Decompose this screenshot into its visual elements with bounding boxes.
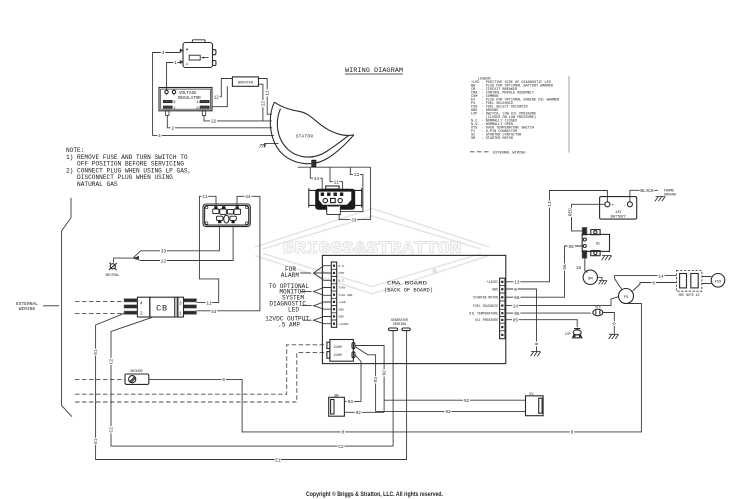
svg-text:11: 11 (266, 90, 271, 96)
svg-text:ALARM: ALARM (281, 272, 300, 279)
wire 16 (SC to SM) (576, 258, 588, 272)
svg-text:240V: 240V (334, 346, 343, 350)
svg-text:(BACK OF BOARD): (BACK OF BOARD) (384, 287, 433, 294)
stator output pin (black) (311, 160, 316, 167)
ground lug (125, 370, 149, 385)
wire 0 (ground lug to FS bottom) (149, 304, 642, 436)
svg-text:16: 16 (576, 266, 582, 271)
svg-text:1: 1 (174, 61, 177, 66)
svg-text:C2: C2 (109, 427, 114, 433)
svg-text:+LED: +LED (339, 301, 346, 304)
wire 1 (module to regulator) (167, 61, 181, 90)
svg-text:4: 4 (158, 134, 161, 139)
svg-text:OIL TEMPERATURE: OIL TEMPERATURE (469, 312, 498, 316)
generator sensing terminals (389, 318, 411, 331)
svg-text:56: 56 (563, 264, 568, 270)
svg-text:44: 44 (211, 310, 217, 315)
svg-text:C2: C2 (338, 445, 344, 450)
svg-text:0: 0 (342, 431, 345, 436)
legend right rule (568, 76, 570, 153)
svg-text:22: 22 (196, 107, 200, 111)
wire 4 (module to left rail) (153, 51, 274, 139)
wire 14 (CMA fuel solenoid to FS) (505, 297, 619, 310)
svg-text:11: 11 (206, 301, 212, 306)
svg-text:85: 85 (513, 319, 519, 324)
watermark BRIGGS&STRATTON text (283, 239, 462, 276)
legend external wiring sample (470, 152, 525, 156)
svg-text:SM: SM (588, 277, 593, 281)
svg-text:GND: GND (492, 288, 498, 292)
title WIRING DIAGRAM (345, 67, 403, 74)
fuel select solenoid FSS (702, 274, 725, 288)
booster box (232, 77, 258, 86)
stator ground stub (260, 144, 279, 148)
wire 44 (bus to connector) (310, 167, 322, 193)
wire 0 (CMA GND to ground) (505, 288, 541, 356)
svg-text:VOLTAGE: VOLTAGE (179, 92, 197, 96)
svg-text:4: 4 (162, 51, 165, 56)
wire 92 (240V top pin to EV, with BW branch) (345, 346, 526, 417)
wire 44 (P1 top right, from CB pin 1) (197, 195, 260, 315)
svg-text:11: 11 (197, 101, 201, 105)
svg-text:LED: LED (288, 306, 299, 313)
svg-text:33: 33 (351, 218, 357, 223)
svg-text:-: - (623, 203, 626, 208)
svg-text:GND: GND (339, 316, 344, 319)
svg-text:92: 92 (383, 370, 388, 376)
svg-text:+12VDC: +12VDC (339, 323, 350, 326)
svg-text:93: 93 (374, 377, 379, 383)
wire 22 (bus to connector, around right) (327, 167, 363, 211)
wire 93 (240V bottom pin to BW) (345, 355, 361, 405)
svg-text:BOOSTER: BOOSTER (238, 82, 254, 86)
svg-text:LOP: LOP (565, 332, 571, 336)
wire 85 (CMA oil pressure to LOP) (505, 319, 577, 328)
wire 14 (FS top to LP plug) (615, 274, 677, 289)
battery negative wire BLACK to frame ground (630, 189, 676, 202)
svg-text:2: 2 (140, 311, 143, 316)
svg-text:STATOR: STATOR (296, 134, 314, 139)
external wiring dashed lines to CB (75, 300, 124, 302)
svg-text:EXTERNAL: EXTERNAL (16, 301, 38, 307)
svg-text:0: 0 (652, 281, 655, 286)
watermark Briggs & Stratton emblem (255, 209, 489, 295)
CMA left terminal strip (331, 262, 352, 327)
dashed external wiring to 240V plug (lower) (75, 353, 327, 402)
svg-text:93: 93 (348, 400, 354, 405)
svg-text:TxRx: TxRx (339, 287, 346, 290)
svg-text:NEUTRAL: NEUTRAL (106, 273, 120, 277)
svg-text:WIRING DIAGRAM: WIRING DIAGRAM (345, 67, 403, 74)
over temperature switch OTS (593, 305, 603, 316)
240V output connector (327, 340, 355, 362)
svg-text:22: 22 (161, 259, 167, 264)
wire 11 (booster to stator) (259, 79, 272, 115)
svg-text:SENSING: SENSING (393, 322, 406, 326)
svg-text:CMA BOARD: CMA BOARD (387, 280, 428, 287)
wire 2 (regulator pin to stator) (167, 115, 272, 131)
wire 95 (CMA oil temperature to OTS) (505, 312, 591, 317)
svg-text:WIRING: WIRING (19, 306, 36, 312)
svg-text:®: ® (433, 269, 437, 276)
wire 0 (FS right to LP plug) (633, 281, 677, 291)
svg-text:0: 0 (571, 431, 574, 436)
svg-text:12: 12 (214, 96, 220, 101)
wire 33 (connector bottom to bus right end) (339, 167, 371, 223)
CMA right terminal strip (469, 278, 505, 339)
low oil pressure switch LOP (565, 329, 582, 338)
svg-text:1: 1 (179, 311, 182, 316)
svg-text:92: 92 (356, 411, 362, 416)
dashed external wiring to 240V plug (upper) (75, 345, 327, 394)
note text (66, 147, 191, 188)
12V battery (600, 197, 637, 220)
stator (270, 102, 354, 163)
svg-text:EXTERNAL WIRING: EXTERNAL WIRING (493, 152, 525, 156)
battery positive wire RED to SC (568, 204, 605, 231)
BW plug (battery warmer) (329, 394, 345, 416)
svg-text:RED: RED (568, 208, 573, 216)
wire 22 horizontal (regulator pin to stator) (204, 115, 272, 124)
svg-text:STARTER MOTOR: STARTER MOTOR (473, 296, 498, 300)
stator top wave (274, 102, 354, 135)
svg-text:3: 3 (179, 302, 182, 307)
svg-text:N.C.: N.C. (339, 279, 346, 282)
CMA left chevrons (wire bundles) (314, 266, 332, 324)
CMA board (322, 255, 505, 363)
stator outer arc (270, 102, 354, 163)
svg-text:Copyright © Briggs & Stratton,: Copyright © Briggs & Stratton, LLC. All … (306, 490, 443, 498)
svg-text:22: 22 (354, 173, 360, 178)
svg-text:0: 0 (535, 342, 540, 345)
svg-text:2: 2 (174, 107, 176, 111)
svg-text:0: 0 (613, 322, 618, 325)
starter contactor SC (582, 227, 612, 260)
svg-text:2: 2 (171, 127, 174, 132)
voltage regulator (159, 88, 212, 116)
LP gas plug (see note 2) (676, 271, 702, 297)
svg-text:BATTERY: BATTERY (611, 215, 627, 219)
svg-text:REGULATOR: REGULATOR (178, 97, 201, 101)
svg-text:NATURAL GAS: NATURAL GAS (66, 181, 118, 188)
svg-text:.5 AMP: .5 AMP (278, 321, 300, 328)
svg-text:22: 22 (261, 101, 266, 107)
starter motor SM (583, 270, 607, 284)
svg-text:C2: C2 (109, 358, 114, 364)
svg-text:13: 13 (514, 281, 520, 286)
stator inner arc (277, 109, 348, 157)
svg-text:11: 11 (202, 195, 208, 200)
stator connector (engine harness) (308, 186, 362, 215)
fuel solenoid FS (619, 289, 634, 304)
wire C2 vertical (CB to bottom rail) (109, 317, 393, 450)
svg-text:13: 13 (548, 201, 553, 207)
svg-text:12V: 12V (615, 211, 622, 215)
svg-text:14: 14 (513, 304, 519, 309)
svg-text:BLACK: BLACK (640, 189, 654, 194)
svg-text:CB: CB (156, 304, 168, 314)
svg-text:GROUND: GROUND (664, 194, 676, 198)
svg-text:+: + (612, 203, 615, 208)
EV plug (engine oil warmer) (526, 393, 544, 416)
svg-text:+12VDC: +12VDC (487, 280, 499, 284)
svg-text:56: 56 (569, 245, 575, 250)
svg-text:22: 22 (211, 120, 217, 125)
svg-text:GROUND: GROUND (130, 370, 142, 374)
legend text block (471, 77, 560, 140)
svg-text:0: 0 (222, 378, 225, 383)
circuit breaker CB (124, 297, 197, 317)
svg-text:FSS: FSS (715, 280, 721, 284)
svg-text:GND: GND (339, 308, 344, 311)
wire 33 (P1 bottom left to neutral junction) (141, 227, 220, 255)
external wiring boundary (62, 198, 72, 417)
solenoid module (top left plug) (181, 40, 216, 68)
svg-text:E1: E1 (94, 438, 99, 444)
wire E1 vertical (CB to bottom rail) (94, 312, 407, 463)
svg-text:OIL PRESSURE: OIL PRESSURE (475, 318, 498, 322)
svg-text:11: 11 (334, 181, 340, 186)
wire 12 (regulator to booster) (212, 79, 232, 101)
neutral junction arrow (114, 251, 141, 263)
svg-text:SEE NOTE #2: SEE NOTE #2 (678, 293, 699, 297)
svg-text:240V: 240V (334, 354, 343, 358)
CMA outside labels (265, 266, 309, 328)
svg-text:COM: COM (339, 272, 344, 275)
svg-text:95: 95 (514, 312, 520, 317)
svg-text:4: 4 (140, 302, 143, 307)
svg-text:TxRx GND: TxRx GND (339, 294, 353, 297)
svg-text:OTS: OTS (595, 305, 601, 309)
external wiring label (16, 301, 59, 312)
svg-text:33: 33 (161, 250, 167, 255)
dashed line to ground lug (75, 378, 125, 380)
svg-text:FS: FS (624, 296, 629, 300)
wire 11 (bus to connector) (330, 167, 343, 193)
svg-text:0: 0 (514, 288, 517, 293)
svg-text:FUEL SOLENOID: FUEL SOLENOID (473, 304, 498, 308)
svg-text:93: 93 (445, 410, 451, 415)
svg-text:14: 14 (658, 274, 664, 279)
svg-text:44: 44 (245, 195, 251, 200)
svg-text:44: 44 (314, 177, 320, 182)
wire 56 (CMA starter motor to SC) (505, 245, 583, 301)
svg-text:6: 6 (174, 101, 176, 105)
svg-text:N.O.: N.O. (339, 265, 346, 268)
wire 22 (P1 bottom right to neutral junction) (141, 227, 234, 265)
svg-text:56: 56 (514, 296, 520, 301)
neutral symbol (106, 263, 120, 277)
wire 22 vertical (booster right to stator wire) (212, 84, 266, 121)
svg-text:SM - STARTER MOTOR: SM - STARTER MOTOR (471, 137, 514, 141)
wire 11 (P1 top left, from CB pin 3) (197, 195, 219, 306)
svg-text:92: 92 (464, 399, 470, 404)
stator bottom bus wire (298, 166, 371, 168)
svg-text:E1: E1 (94, 349, 99, 355)
svg-text:SC: SC (596, 243, 601, 247)
svg-text:E1: E1 (275, 458, 281, 463)
wire 93 (240V top pin diagonal to EV) (355, 347, 526, 416)
OTS ground wire 0 (603, 313, 619, 340)
wire 13 (CMA +12VDC to battery +) (505, 191, 607, 286)
connector P1 (6-pin) (203, 204, 250, 227)
